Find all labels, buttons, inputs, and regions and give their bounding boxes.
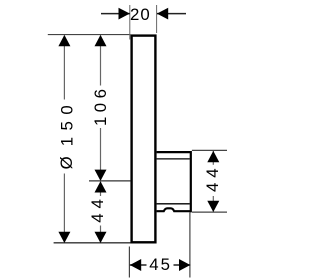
dim 20: left tail line: [101, 13, 130, 15]
dim 106: bottom arrow: [95, 170, 107, 181]
dim 44 right: top extension line: [192, 149, 227, 151]
svg-text:106: 106: [91, 85, 110, 127]
svg-text:20: 20: [130, 5, 151, 24]
svg-text:44: 44: [203, 164, 222, 192]
dim 44 left: top arrow: [95, 181, 107, 192]
wire: center extension line of function box: [89, 180, 130, 182]
function unit box: right edge: [190, 151, 192, 212]
dim 45: left extension line: [128, 247, 130, 278]
dim 44 left: dimension line: [100, 181, 102, 243]
dim 45: left arrow: [130, 259, 141, 271]
function unit box: bottom edge with bump: [157, 208, 191, 211]
dim 45: dimension line: [130, 264, 191, 266]
dim 44 right: bottom extension line: [192, 211, 227, 213]
svg-text:45: 45: [149, 255, 172, 274]
dim 20: left arrow: [119, 8, 130, 20]
escutcheon plate (side view): [132, 36, 156, 243]
svg-text:44: 44: [88, 194, 107, 222]
dim 20: right arrow: [157, 8, 168, 20]
dim 106: top arrow: [95, 35, 107, 46]
dim 106: dimension line: [100, 36, 102, 181]
wire: top extension line at plate top level: [48, 34, 131, 36]
svg-text:Ø150: Ø150: [57, 99, 76, 170]
wire: bottom extension line at plate bottom level: [54, 242, 133, 244]
dim 44 right: top arrow: [207, 151, 219, 162]
dim 45: right arrow: [179, 259, 190, 271]
dim 150: dimension line: [63, 36, 65, 243]
dim 44 right: bottom arrow: [207, 201, 219, 212]
function unit box: top edge: [157, 151, 191, 153]
dim 44 left: bottom arrow: [95, 232, 107, 243]
function unit box: inner top line: [157, 158, 190, 160]
dim 20: right extension line: [156, 5, 158, 33]
dim 20: right tail line: [157, 13, 186, 15]
function unit box: inner bottom line: [157, 203, 190, 205]
dim 45: right extension line: [189, 213, 191, 278]
dim 20: left extension line: [129, 5, 131, 40]
dim 150: top arrow: [58, 35, 70, 46]
dim 44 right: dimension line: [212, 151, 214, 212]
dim 150: bottom arrow: [58, 232, 70, 243]
